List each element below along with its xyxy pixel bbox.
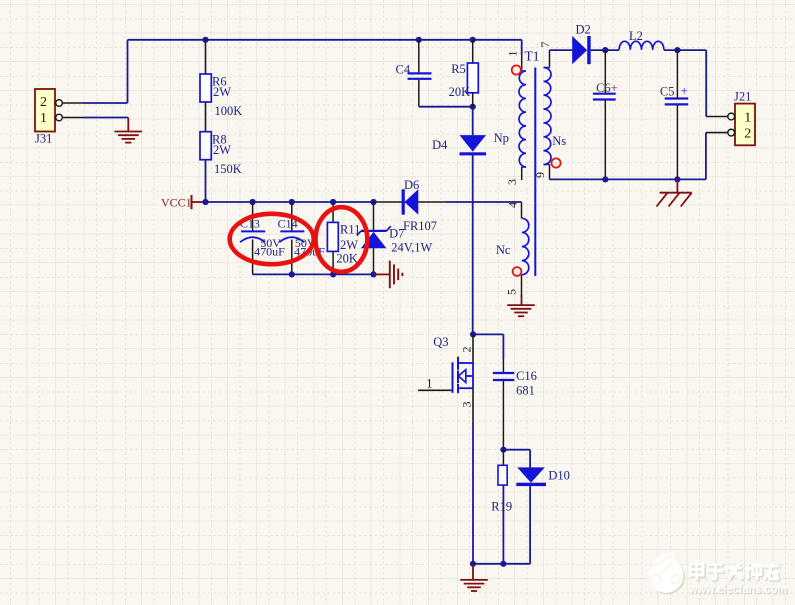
svg-text:2: 2 <box>40 95 47 110</box>
svg-text:Nc: Nc <box>496 243 511 257</box>
svg-text:D6: D6 <box>404 178 419 192</box>
svg-text:FR107: FR107 <box>403 219 437 233</box>
svg-text:+: + <box>681 83 688 98</box>
svg-text:681: 681 <box>516 383 535 397</box>
svg-text:D10: D10 <box>548 468 570 482</box>
svg-text:24V,1W: 24V,1W <box>391 240 432 254</box>
svg-text:2: 2 <box>460 347 474 353</box>
svg-text:1: 1 <box>426 376 432 390</box>
svg-text:J31: J31 <box>35 132 52 146</box>
svg-text:20K: 20K <box>449 85 471 99</box>
svg-text:2: 2 <box>744 127 751 142</box>
svg-text:Ns: Ns <box>552 134 566 148</box>
svg-text:D4: D4 <box>432 138 448 152</box>
svg-text:VCC1: VCC1 <box>161 195 192 209</box>
svg-text:R5: R5 <box>451 62 466 76</box>
svg-text:L2: L2 <box>629 29 643 43</box>
svg-text:C6+: C6+ <box>596 81 618 95</box>
svg-text:100K: 100K <box>215 104 243 118</box>
svg-text:www.elecfans.com: www.elecfans.com <box>688 582 787 596</box>
svg-text:1: 1 <box>40 111 47 126</box>
svg-text:T1: T1 <box>525 49 540 64</box>
svg-text:Q3: Q3 <box>433 335 448 349</box>
svg-text:R19: R19 <box>491 500 512 514</box>
svg-text:J21: J21 <box>734 89 751 103</box>
svg-text:7: 7 <box>538 42 552 48</box>
svg-text:Np: Np <box>494 131 509 145</box>
svg-text:3: 3 <box>505 179 519 185</box>
svg-text:1: 1 <box>506 51 520 57</box>
svg-text:2W: 2W <box>340 238 358 252</box>
svg-text:D2: D2 <box>576 22 591 36</box>
svg-text:3: 3 <box>460 402 474 408</box>
svg-text:4: 4 <box>506 202 520 208</box>
svg-text:C16: C16 <box>516 369 537 383</box>
svg-text:150K: 150K <box>214 162 242 176</box>
svg-text:5: 5 <box>505 289 519 295</box>
svg-text:2W: 2W <box>213 85 231 99</box>
svg-text:470uF: 470uF <box>254 245 285 259</box>
svg-text:1: 1 <box>744 111 751 126</box>
svg-text:2W: 2W <box>213 143 231 157</box>
svg-text:20K: 20K <box>336 252 358 266</box>
svg-text:C4: C4 <box>396 63 411 77</box>
svg-text:C5: C5 <box>660 85 675 99</box>
svg-text:9: 9 <box>533 172 547 178</box>
